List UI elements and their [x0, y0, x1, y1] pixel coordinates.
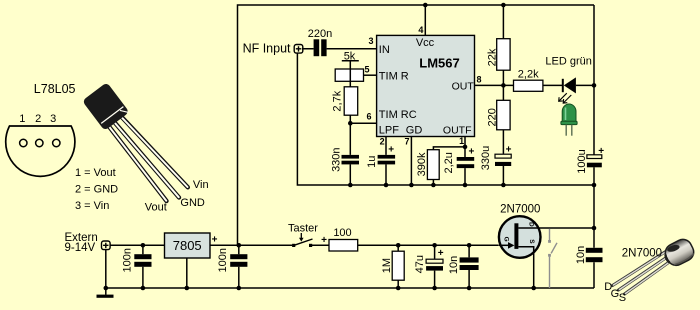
svg-text:2,2u: 2,2u: [443, 152, 455, 173]
svg-text:100n: 100n: [217, 248, 229, 272]
svg-text:3 = Vin: 3 = Vin: [75, 200, 109, 212]
svg-text:2N7000: 2N7000: [500, 204, 540, 216]
svg-text:390k: 390k: [416, 152, 428, 176]
svg-text:LPF: LPF: [379, 125, 399, 137]
svg-text:2 = GND: 2 = GND: [75, 184, 118, 196]
svg-text:OUT: OUT: [452, 80, 475, 92]
svg-text:GND: GND: [180, 197, 205, 209]
svg-text:10n: 10n: [575, 246, 587, 264]
svg-text:1: 1: [19, 113, 25, 125]
svg-text:Vout: Vout: [145, 202, 167, 214]
svg-text:L78L05: L78L05: [34, 82, 76, 96]
svg-text:220n: 220n: [308, 28, 332, 40]
svg-text:2,2k: 2,2k: [518, 68, 539, 80]
svg-text:2: 2: [35, 113, 41, 125]
svg-text:NF Input: NF Input: [243, 42, 291, 56]
svg-text:220: 220: [486, 108, 498, 126]
svg-text:5: 5: [364, 64, 369, 74]
svg-text:8: 8: [477, 75, 482, 85]
svg-text:330u: 330u: [480, 146, 492, 170]
svg-text:9-14V: 9-14V: [65, 242, 96, 254]
svg-text:5k: 5k: [344, 51, 356, 63]
svg-text:10n: 10n: [448, 256, 460, 274]
svg-text:100n: 100n: [121, 248, 133, 272]
svg-text:D: D: [528, 222, 535, 227]
svg-text:100u: 100u: [576, 149, 588, 173]
svg-text:LM567: LM567: [419, 55, 459, 70]
svg-text:1 = Vout: 1 = Vout: [75, 167, 116, 179]
svg-text:100: 100: [333, 227, 351, 239]
svg-text:7805: 7805: [173, 238, 202, 253]
svg-text:GD: GD: [406, 125, 423, 137]
svg-text:IN: IN: [379, 44, 390, 56]
svg-text:+: +: [438, 248, 444, 259]
svg-text:2N7000: 2N7000: [622, 248, 662, 260]
svg-text:22k: 22k: [486, 48, 498, 66]
svg-text:+: +: [388, 145, 394, 156]
svg-text:47u: 47u: [414, 255, 426, 273]
svg-text:S: S: [619, 292, 626, 304]
svg-text:Vin: Vin: [193, 179, 209, 191]
svg-text:S: S: [528, 239, 535, 244]
svg-text:+: +: [468, 147, 474, 158]
svg-text:3: 3: [368, 36, 373, 46]
svg-text:2,7k: 2,7k: [331, 90, 343, 111]
svg-text:LED grün: LED grün: [545, 56, 591, 68]
svg-text:1u: 1u: [366, 156, 378, 168]
svg-text:1M: 1M: [381, 258, 393, 273]
svg-text:+: +: [598, 146, 604, 157]
svg-text:4: 4: [418, 25, 423, 35]
svg-text:TIM R: TIM R: [379, 70, 409, 82]
svg-text:Taster: Taster: [288, 223, 318, 235]
svg-text:+: +: [506, 144, 512, 155]
svg-text:+: +: [321, 235, 327, 246]
svg-text:6: 6: [366, 112, 371, 122]
svg-text:+: +: [212, 235, 218, 246]
svg-text:1: 1: [459, 136, 464, 146]
svg-text:OUTF: OUTF: [443, 125, 472, 137]
svg-text:Vcc: Vcc: [416, 37, 435, 49]
svg-text:G: G: [503, 237, 510, 242]
svg-text:3: 3: [50, 113, 56, 125]
svg-text:7: 7: [404, 137, 409, 147]
svg-text:TIM RC: TIM RC: [379, 109, 417, 121]
svg-text:2: 2: [380, 137, 385, 147]
svg-text:330n: 330n: [330, 147, 342, 171]
